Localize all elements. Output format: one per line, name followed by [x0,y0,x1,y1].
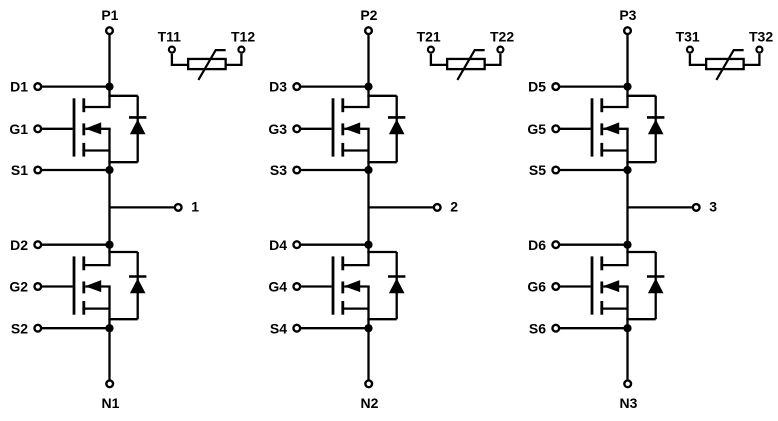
terminal S2 [34,325,41,332]
Q1 channel bar (body) [82,123,85,135]
wire body-diode top of Q5 [626,95,655,97]
wire to phase output 3 [628,206,693,208]
Q1 channel bar (drain) [82,98,85,112]
wire Q3 source lead [341,149,368,151]
wire Q2 body lead [85,285,110,287]
junction at source of Q2 [105,324,113,332]
svg-text:3: 3 [709,198,717,214]
terminal N3 [624,380,631,387]
thermistor RT3 symbol stroke [716,50,743,80]
terminal G6 [552,283,559,290]
wire Q5 source lead [600,149,627,151]
svg-text:D1: D1 [10,79,28,95]
body diode of Q6 cathode bar [647,275,664,278]
Q2 channel bar (body) [82,282,85,294]
junction at source of Q1 [105,166,113,174]
wire D5 to node [560,85,628,87]
terminal T12 [238,47,244,53]
wire phase bus 3 [626,129,628,266]
svg-text:S2: S2 [11,320,28,336]
wire G1 gate lead [42,128,73,130]
gate electrode of Q2 [73,256,76,314]
wire P2 to drain [367,35,369,108]
wire to phase output 1 [110,206,175,208]
junction at source of Q4 [364,324,372,332]
junction at drain of Q3 [364,83,372,91]
gate electrode of Q6 [591,256,594,314]
wire source of Q4 to N2 [367,287,369,380]
body diode of Q4 cathode bar [388,275,405,278]
terminal T11 [169,47,175,53]
svg-text:N2: N2 [361,395,379,411]
body diode of Q4 [389,278,405,293]
wire S6 to node [560,327,628,329]
svg-text:S1: S1 [11,162,28,178]
body diode of Q1 [130,119,146,134]
svg-text:S6: S6 [529,320,546,336]
Q5 channel bar (source) [600,143,603,157]
Q5 channel bar (body) [600,123,603,135]
Q4 channel bar (body) [341,282,344,294]
svg-text:T21: T21 [417,28,441,44]
wire Q4 drain lead [341,264,368,266]
wire G6 gate lead [560,285,591,287]
svg-text:T31: T31 [676,28,700,44]
wire D4 to node [301,244,369,246]
wire phase bus 1 [108,129,110,266]
wire T12 lead [226,54,242,65]
gate electrode of Q1 [73,98,76,156]
wire G2 gate lead [42,285,73,287]
wire body-diode top of Q2 [108,251,137,253]
wire body-diode top of Q3 [367,95,396,97]
Q3 channel bar (body) [341,123,344,135]
terminal N1 [106,380,113,387]
Q2 channel bar (source) [82,301,85,315]
thermistor RT3 body [706,59,744,69]
svg-text:D6: D6 [528,237,546,253]
Q1 substrate arrow [85,122,101,134]
Q3 channel bar (source) [341,143,344,157]
svg-text:P1: P1 [101,7,118,23]
wire T32 lead [744,54,760,65]
Q6 substrate arrow [603,280,619,292]
svg-text:T12: T12 [231,28,255,44]
junction at source of Q6 [623,324,631,332]
wire T31 lead [690,54,706,65]
gate electrode of Q3 [332,98,335,156]
svg-text:S5: S5 [529,162,546,178]
wire S1 to node [42,169,110,171]
wire D1 to node [42,85,110,87]
wire T22 lead [485,54,501,65]
Q2 substrate arrow [85,280,101,292]
svg-text:T11: T11 [158,28,182,44]
Q2 channel bar (drain) [82,256,85,270]
terminal T32 [756,47,762,53]
svg-text:G6: G6 [527,279,546,295]
wire body-diode bottom of Q2 [108,318,137,320]
wire body-diode side of Q6 [655,252,657,319]
wire Q6 source lead [600,307,627,309]
terminal D1 [34,83,41,90]
terminal S1 [34,167,41,174]
svg-text:G3: G3 [268,121,287,137]
terminal T31 [687,47,693,53]
svg-text:T32: T32 [749,28,773,44]
wire body-diode bottom of Q6 [626,318,655,320]
wire Q1 drain lead [82,106,109,108]
Q5 channel bar (drain) [600,98,603,112]
terminal G1 [34,125,41,132]
wire D3 to node [301,85,369,87]
wire Q2 source lead [82,307,109,309]
svg-text:D5: D5 [528,79,546,95]
body diode of Q6 [648,278,664,293]
wire D6 to node [560,244,628,246]
terminal T22 [497,47,503,53]
svg-text:P3: P3 [619,7,636,23]
svg-text:D4: D4 [269,237,287,253]
wire source of Q2 to N1 [108,287,110,380]
wire Q6 drain lead [600,264,627,266]
terminal P3 [624,27,631,34]
wire body-diode side of Q1 [137,96,139,162]
wire G5 gate lead [560,128,591,130]
terminal G3 [293,125,300,132]
svg-text:D2: D2 [10,237,28,253]
terminal D3 [293,83,300,90]
Q6 channel bar (drain) [600,256,603,270]
Q3 substrate arrow [344,122,360,134]
wire body-diode top of Q4 [367,251,396,253]
junction at source of Q5 [623,166,631,174]
wire phase bus 2 [367,129,369,266]
wire T11 lead [172,54,188,65]
wire S3 to node [301,169,369,171]
Q5 substrate arrow [603,122,619,134]
wire body-diode side of Q3 [396,96,398,162]
terminal G4 [293,283,300,290]
body diode of Q2 [130,278,146,293]
wire P3 to drain [626,35,628,108]
wire D2 to node [42,244,110,246]
thermistor RT2 symbol stroke [457,50,484,80]
terminal G2 [34,283,41,290]
svg-text:S4: S4 [270,320,287,336]
thermistor RT1 body [188,59,226,69]
terminal phase output 3 [693,204,700,211]
body diode of Q3 [389,119,405,134]
wire body-diode side of Q4 [396,252,398,319]
Q4 channel bar (drain) [341,256,344,270]
body diode of Q2 cathode bar [129,275,146,278]
wire Q4 source lead [341,307,368,309]
svg-text:G2: G2 [9,279,28,295]
terminal D4 [293,241,300,248]
wire body-diode top of Q6 [626,251,655,253]
gate electrode of Q4 [332,256,335,314]
junction at drain of Q1 [105,83,113,91]
terminal P1 [106,27,113,34]
terminal N2 [365,380,372,387]
terminal T21 [428,47,434,53]
svg-text:T22: T22 [490,28,514,44]
svg-text:G5: G5 [527,121,546,137]
Q1 channel bar (source) [82,143,85,157]
wire Q5 body lead [603,128,628,130]
wire Q4 body lead [344,285,369,287]
terminal P2 [365,27,372,34]
wire Q5 drain lead [600,106,627,108]
junction at source of Q3 [364,166,372,174]
svg-text:D3: D3 [269,79,287,95]
junction at drain of Q6 [623,241,631,249]
wire Q3 drain lead [341,106,368,108]
junction at drain of Q5 [623,83,631,91]
wire body-diode side of Q5 [655,96,657,162]
junction at drain of Q4 [364,241,372,249]
wire S5 to node [560,169,628,171]
wire source of Q6 to N3 [626,287,628,380]
wire S2 to node [42,327,110,329]
svg-text:G1: G1 [9,121,28,137]
svg-text:G4: G4 [268,279,287,295]
Q6 channel bar (source) [600,301,603,315]
wire Q1 source lead [82,149,109,151]
wire Q3 body lead [344,128,369,130]
Q3 channel bar (drain) [341,98,344,112]
terminal D5 [552,83,559,90]
terminal S4 [293,325,300,332]
terminal phase output 1 [175,204,182,211]
body diode of Q5 cathode bar [647,116,664,119]
wire Q6 body lead [603,285,628,287]
Q6 channel bar (body) [600,282,603,294]
terminal G5 [552,125,559,132]
wire body-diode side of Q2 [137,252,139,319]
svg-text:N3: N3 [620,395,638,411]
wire T21 lead [431,54,447,65]
svg-text:2: 2 [450,198,458,214]
body diode of Q3 cathode bar [388,116,405,119]
terminal D6 [552,241,559,248]
terminal S3 [293,167,300,174]
gate electrode of Q5 [591,98,594,156]
wire body-diode bottom of Q5 [626,161,655,163]
terminal phase output 2 [434,204,441,211]
svg-text:N1: N1 [102,395,120,411]
body diode of Q1 cathode bar [129,116,146,119]
terminal S6 [552,325,559,332]
wire body-diode bottom of Q4 [367,318,396,320]
Q4 channel bar (source) [341,301,344,315]
terminal D2 [34,241,41,248]
junction at drain of Q2 [105,241,113,249]
svg-text:P2: P2 [360,7,377,23]
wire Q2 drain lead [82,264,109,266]
body diode of Q5 [648,119,664,134]
wire body-diode top of Q1 [108,95,137,97]
thermistor RT1 symbol stroke [198,50,225,80]
wire P1 to drain [108,35,110,108]
wire G3 gate lead [301,128,332,130]
wire to phase output 2 [369,206,434,208]
wire G4 gate lead [301,285,332,287]
thermistor RT2 body [447,59,485,69]
wire body-diode bottom of Q1 [108,161,137,163]
svg-text:S3: S3 [270,162,287,178]
svg-text:1: 1 [191,198,199,214]
wire Q1 body lead [85,128,110,130]
wire S4 to node [301,327,369,329]
Q4 substrate arrow [344,280,360,292]
terminal S5 [552,167,559,174]
wire body-diode bottom of Q3 [367,161,396,163]
